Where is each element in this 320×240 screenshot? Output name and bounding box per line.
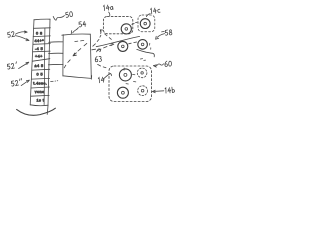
label 14b [165, 87, 175, 93]
row line [31, 94, 49, 97]
label 14 [98, 77, 104, 83]
row line [33, 43, 50, 46]
squiggle near 63 [97, 49, 101, 52]
ticks near roller 58 [150, 43, 151, 49]
dashed arrow to roller pair [97, 43, 113, 50]
roller 14a [121, 24, 131, 34]
arrow 14b [152, 90, 163, 93]
svg-text:1s t: 1s t [37, 99, 45, 103]
label 63 [95, 56, 102, 62]
arrow 52 to row2 [15, 31, 27, 34]
roller 58 axle [141, 43, 144, 46]
box 54 right edge [90, 34, 91, 79]
wire stack to box [49, 41, 63, 43]
swoosh under table [17, 108, 56, 115]
svg-text:-4 5: -4 5 [35, 47, 43, 51]
squiggle arrow 60 [153, 64, 163, 67]
leader hook 50 [53, 16, 56, 20]
table 50 bottom edge [30, 104, 48, 107]
row line [31, 87, 49, 88]
dashed box unit 14a [103, 16, 132, 33]
dashed arrow to unit 14a [93, 30, 103, 46]
row line [33, 50, 50, 53]
label 14c [150, 7, 160, 14]
web line [96, 36, 139, 46]
label 54 [79, 21, 86, 27]
svg-text:vone: vone [35, 90, 45, 94]
dash pair right of box [92, 48, 96, 51]
small dashes near web exit [140, 59, 145, 61]
roller D1 axle [124, 73, 127, 76]
box 54 bottom edge [63, 76, 92, 79]
marks right of row 8 [51, 80, 58, 83]
wire stack to box [49, 52, 64, 54]
label 52' [7, 62, 17, 69]
leader 14a [109, 12, 110, 16]
dash before 58 [162, 30, 165, 33]
row line [32, 68, 50, 71]
arrow 52 to row3 [15, 36, 29, 41]
dashes to lower unit [98, 64, 106, 67]
svg-text:t.4sec.: t.4sec. [33, 82, 47, 86]
label 58 [165, 30, 172, 36]
arrow 52' [19, 62, 29, 68]
tick above D1 [123, 68, 125, 70]
leader 14 [103, 74, 111, 80]
label 60 [165, 61, 172, 67]
dashed box unit 14c [138, 15, 155, 32]
svg-text:0 5: 0 5 [37, 73, 43, 77]
row line [33, 59, 50, 62]
box 54 inner dash [75, 40, 78, 43]
table 50 top edge [34, 18, 50, 21]
roller below 14a [118, 41, 128, 51]
table 50 left edge [30, 20, 34, 105]
box 54 inner dashed arrow [64, 43, 87, 67]
roller 14c axle [144, 22, 147, 25]
roller D3 [117, 87, 128, 98]
row line [33, 35, 50, 38]
leader 50 [57, 16, 65, 19]
roller D1 [119, 69, 131, 81]
row line [34, 27, 51, 30]
dashed box lower unit [109, 66, 152, 102]
box 54 top edge [62, 34, 91, 35]
wire stack to box [48, 63, 63, 65]
dashes between middle rollers [129, 42, 137, 44]
label 52 [7, 31, 14, 37]
svg-text:+4+: +4+ [35, 55, 43, 59]
svg-text:0 8: 0 8 [36, 31, 42, 35]
svg-text:44+*: 44+* [35, 39, 45, 43]
leader 54 [73, 28, 79, 33]
row line [32, 77, 50, 80]
roller D2 dashed [137, 68, 147, 78]
box 54 top tick [70, 31, 73, 34]
roller D4 axle [141, 89, 144, 92]
box 54 left edge [62, 35, 64, 76]
roller axle [122, 45, 125, 48]
roller D2 axle [141, 72, 143, 74]
dashes toward lower roller [105, 34, 112, 40]
table 50 right edge [47, 19, 50, 114]
table inner column divider [43, 28, 46, 104]
roller D3 axle [122, 91, 125, 94]
label 50 [65, 11, 72, 17]
roller 14a axle [125, 28, 128, 31]
label 14a [103, 4, 113, 10]
box 54 inner dash [81, 39, 84, 42]
roller 58 [138, 40, 148, 50]
label 52'' [11, 78, 23, 86]
roller D4 dashed [138, 86, 148, 96]
arrow 52'' [21, 80, 29, 86]
dashes inside lower unit [126, 74, 136, 84]
leader 14c [146, 14, 150, 17]
roller 14c [140, 19, 150, 29]
dashes between top rollers [132, 22, 138, 24]
arrow 58 [156, 34, 165, 40]
svg-text:±4 5: ±4 5 [35, 64, 44, 68]
web line exit [137, 49, 155, 56]
